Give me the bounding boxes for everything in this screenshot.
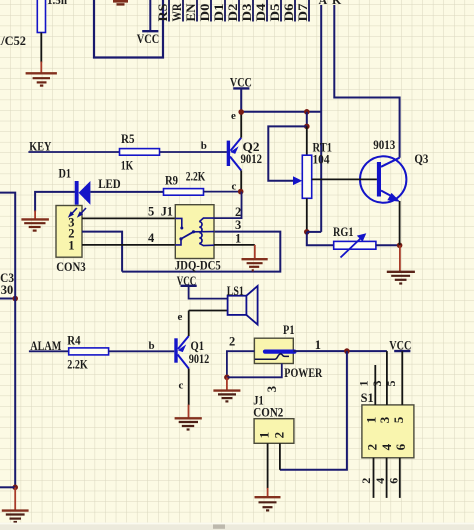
switch S1 [361, 391, 414, 458]
svg-text:LED: LED [98, 177, 121, 191]
svg-text:2: 2 [365, 444, 380, 451]
svg-text:LS1: LS1 [227, 284, 244, 298]
big IC box bottom corner [94, 0, 163, 58]
svg-text:R4: R4 [67, 334, 81, 348]
wire LED cathode to ground corner [35, 192, 75, 212]
svg-text:D4: D4 [254, 3, 268, 22]
diode D1 LED [59, 167, 121, 205]
resistor R5 [120, 132, 160, 173]
svg-text:CON3: CON3 [56, 260, 85, 274]
wire P1 pin1 to S1/VCC [293, 350, 387, 352]
svg-text:3: 3 [377, 416, 392, 423]
wire RG1 to Q3 emitter node [376, 244, 400, 246]
ground at Q1 collector [175, 405, 202, 430]
svg-text:5: 5 [148, 205, 154, 219]
svg-text:A: A [319, 0, 328, 7]
wire ALAM to R4 [29, 350, 69, 352]
svg-text:Q3: Q3 [414, 151, 428, 166]
svg-text:J1: J1 [161, 205, 173, 219]
wire net K (down and over to Q3 collector) [334, 5, 399, 158]
svg-text:104: 104 [313, 153, 331, 167]
svg-text:1K: 1K [121, 159, 134, 173]
ground at Q3 emitter [387, 245, 415, 283]
svg-text:R5: R5 [121, 132, 135, 146]
CON2 pin 1 stub [267, 443, 269, 488]
transistor Q2 9012 [227, 110, 262, 193]
svg-text:4: 4 [379, 443, 394, 450]
svg-text:D2: D2 [226, 4, 240, 22]
wire R9 to Q2 collector node [204, 191, 241, 193]
CON2 pin 2 stub [279, 443, 281, 470]
junction on VCC rail [304, 109, 310, 115]
junction RT1 bottom node [304, 229, 310, 235]
svg-text:2: 2 [359, 478, 373, 484]
svg-text:5: 5 [384, 381, 398, 387]
ground at left rail bottom [2, 487, 29, 522]
capacitor C52 body (clipped at top) [37, 0, 67, 33]
wire relay pin1 to ground [214, 244, 255, 246]
wire net A (down to RT1 node) [320, 5, 322, 232]
ground at CON2 pin1 [255, 488, 281, 511]
svg-text:RG1: RG1 [333, 225, 354, 239]
svg-text:D0: D0 [198, 4, 212, 22]
svg-text:1: 1 [256, 432, 271, 439]
wire RT1 top drop [306, 112, 308, 127]
power VCC (top, inside box) [137, 0, 160, 46]
svg-text:1: 1 [235, 232, 241, 246]
wire RT1 wiper loop [268, 126, 307, 180]
svg-text:EN: EN [184, 4, 198, 22]
pin wire D4 [254, 0, 268, 22]
svg-text:b: b [201, 140, 207, 152]
svg-text:9013: 9013 [373, 138, 395, 152]
rheostat RG1 [333, 225, 376, 258]
power VCC (S1) [389, 338, 411, 352]
svg-text:2: 2 [235, 205, 241, 219]
svg-text:1: 1 [357, 381, 371, 387]
pin wire D1 [212, 0, 226, 22]
svg-text:e: e [231, 110, 236, 122]
Q2 emitter pin wire [240, 112, 242, 137]
svg-text:Q1: Q1 [191, 338, 205, 353]
wire stub left at rail bottom [0, 486, 15, 488]
speaker LS1 [227, 284, 258, 324]
svg-text:c: c [179, 379, 184, 391]
svg-text:1.5n: 1.5n [47, 0, 67, 7]
svg-text:D3: D3 [240, 4, 254, 22]
svg-text:CON2: CON2 [253, 406, 283, 420]
wire CON3 pin3 to relay pin5 [82, 217, 175, 219]
S1 pin 5 stub (from VCC) [401, 351, 403, 405]
svg-text:6: 6 [387, 478, 401, 484]
wire Q1 emitter to LS1 [189, 310, 228, 312]
Q3 emitter pin wire [399, 201, 401, 245]
svg-text:b: b [149, 340, 155, 352]
wire KEY to R5 [28, 151, 119, 153]
svg-text:3: 3 [370, 381, 384, 387]
wire LED anode to R9 [90, 191, 163, 193]
Q1 collector pin wire [188, 369, 190, 406]
LED emission arrows [68, 208, 86, 218]
relay coil [199, 218, 214, 246]
svg-text:JDQ-DC5: JDQ-DC5 [175, 258, 221, 272]
wire CON3 pin1 to relay pin4 [82, 244, 175, 246]
wire bottom rail to relay contact pin3 [122, 232, 280, 272]
svg-text:POWER: POWER [284, 366, 323, 380]
S1 pin 3 stub [386, 351, 388, 405]
svg-text:D1: D1 [212, 4, 226, 22]
relay contact [175, 218, 214, 245]
transistor Q1 9012 [174, 311, 209, 391]
junction left rail bottom [12, 485, 18, 491]
pin wire D7 [296, 0, 310, 22]
wire VCC rail to net A [241, 111, 321, 113]
svg-text:4: 4 [373, 478, 387, 484]
svg-text:4: 4 [148, 231, 155, 245]
transistor Q3 9013 [360, 138, 429, 203]
svg-text:2.2K: 2.2K [186, 169, 206, 183]
power VCC (Q2 emitter) [230, 75, 252, 112]
Q1 emitter pin wire [188, 311, 190, 337]
wire CON3 pin2 down to bottom rail [82, 232, 122, 272]
pin wire RS [156, 0, 170, 22]
pin wire D2 [226, 0, 240, 22]
wire relay pin2 up to Q2 collector node [214, 192, 242, 219]
pin wire D6 [282, 0, 296, 22]
power VCC (LS1) [177, 274, 228, 299]
svg-text:R9: R9 [165, 174, 178, 188]
pin wire under C52 [40, 33, 42, 63]
wire left ground rail [0, 193, 15, 488]
svg-text:1/C52: 1/C52 [0, 34, 26, 48]
S1 pin 6 stub [399, 458, 401, 498]
svg-text:9012: 9012 [241, 152, 263, 166]
wire P1 pin2 to ground node [227, 351, 255, 377]
ground at P1 [213, 377, 240, 401]
svg-text:1: 1 [68, 239, 74, 253]
wire P1 node down to CON2 pin2 [280, 351, 347, 470]
pin wire D0 [198, 0, 212, 22]
junction at Q2 emitter node [238, 109, 244, 115]
svg-text:D1: D1 [59, 167, 72, 181]
S1 pin 1 stub [374, 365, 376, 405]
svg-text:2: 2 [229, 334, 235, 348]
wire C3 to left rail [0, 298, 15, 300]
resistor R9 2.2K [164, 169, 206, 195]
svg-text:RS: RS [156, 3, 170, 21]
wire P1 pin3 to ground node [227, 364, 282, 378]
svg-text:P1: P1 [283, 323, 295, 337]
svg-text:5: 5 [391, 416, 406, 423]
Q3 base pin wire [312, 178, 377, 180]
svg-text:30: 30 [1, 283, 14, 297]
ground at relay pin1 [242, 245, 268, 271]
svg-text:D7: D7 [296, 4, 310, 22]
Q2 collector pin wire [240, 171, 242, 192]
pin wire D3 [240, 0, 254, 22]
svg-text:WR: WR [170, 3, 184, 22]
svg-text:2.2K: 2.2K [67, 357, 88, 371]
pin wire WR [170, 0, 184, 22]
svg-text:e: e [178, 311, 183, 323]
svg-text:3: 3 [235, 218, 241, 232]
ground at LED cathode [21, 211, 49, 231]
connector J1 CON2 [253, 393, 294, 443]
relay J1 JDQ-DC5 [148, 205, 241, 273]
pin wire EN [184, 0, 198, 22]
svg-text:9012: 9012 [189, 352, 210, 366]
connector P1 POWER [229, 323, 323, 392]
ground under C52 [26, 62, 57, 86]
junction C3 node [12, 296, 18, 302]
bottom window strip [0, 523, 474, 530]
svg-text:2: 2 [272, 432, 287, 439]
capacitor C3 labels (clipped at left) [0, 271, 14, 297]
connector CON3 [56, 206, 86, 275]
svg-text:S1: S1 [361, 391, 374, 405]
S1 pin 4 stub [386, 458, 388, 498]
junction P1 pin1 node [344, 348, 350, 354]
wire R4 to Q1 base [109, 350, 175, 352]
wire RT1 node down to RG1 [307, 232, 334, 245]
svg-text:D5: D5 [268, 4, 282, 22]
svg-text:6: 6 [393, 443, 408, 450]
S1 pin 2 stub [373, 458, 375, 498]
wire RT1 bottom to net A vertical [307, 231, 321, 233]
resistor R4 2.2K [67, 334, 108, 372]
red pin mark at top edge [113, 1, 128, 4]
junction Q2 collector node [238, 189, 244, 195]
wire R5 to Q2 base [160, 151, 227, 153]
junction Q3 emitter node [397, 243, 403, 249]
svg-text:VCC: VCC [137, 32, 160, 46]
svg-text:3: 3 [265, 386, 279, 392]
potentiometer RT1 104 [293, 126, 332, 231]
junction P1 ground node [224, 375, 230, 381]
svg-text:D6: D6 [282, 4, 296, 22]
pin wire D5 [268, 0, 282, 22]
junction RT1 top node [304, 124, 310, 130]
